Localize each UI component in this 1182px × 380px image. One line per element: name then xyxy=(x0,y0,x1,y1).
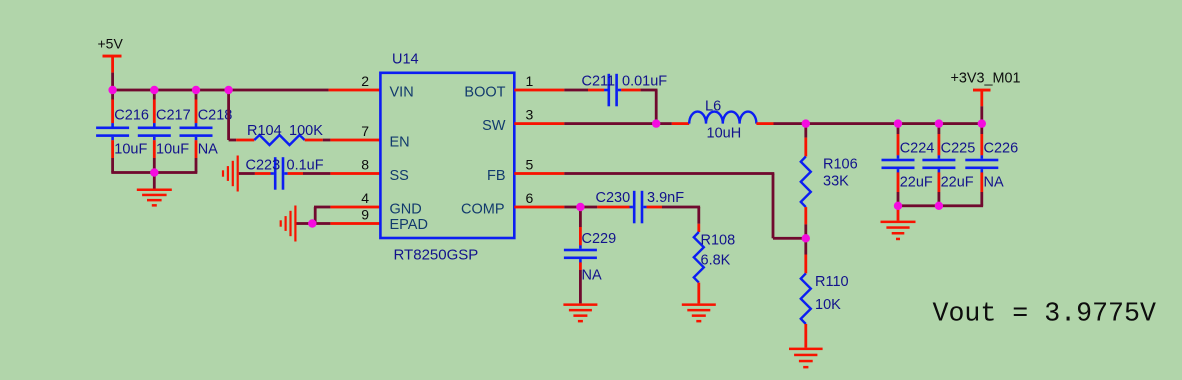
resistor R106 body xyxy=(801,157,811,208)
svg-text:8: 8 xyxy=(361,157,369,173)
pin name GND xyxy=(390,201,422,217)
resistor R108 top pin xyxy=(697,207,700,232)
svg-text:U14: U14 xyxy=(392,51,419,67)
inductor L6 left pin xyxy=(672,122,689,125)
pin 3 stub (SW) xyxy=(514,122,564,125)
pin number 4 xyxy=(361,190,369,206)
svg-text:0.01uF: 0.01uF xyxy=(622,74,667,90)
pin number 1 xyxy=(526,73,534,89)
node junction EN branch xyxy=(224,86,232,94)
inductor L6 body xyxy=(689,112,756,124)
value R106 33K xyxy=(823,174,849,190)
label RT8250GSP xyxy=(394,246,479,263)
pin name SW xyxy=(482,118,506,134)
node junction out-gnd rail C224 xyxy=(894,202,902,210)
pin number 5 xyxy=(526,157,534,173)
svg-text:C216: C216 xyxy=(114,107,149,123)
svg-text:10K: 10K xyxy=(815,297,841,313)
wire FB to divider node xyxy=(773,237,806,240)
node junction L6/R106 xyxy=(802,119,810,127)
wire SW to L6 xyxy=(564,122,672,125)
svg-text:FB: FB xyxy=(487,168,506,184)
label C218 xyxy=(198,107,233,123)
pin number 8 xyxy=(361,157,369,173)
node junction R106/R110/FB xyxy=(802,234,810,242)
svg-text:2: 2 xyxy=(361,73,369,89)
pin number 6 xyxy=(526,190,534,206)
pin name SS xyxy=(390,168,409,184)
label R110 xyxy=(815,274,849,290)
svg-text:33K: 33K xyxy=(823,174,849,190)
pin 2 stub (VIN) xyxy=(329,89,381,92)
node junction C217 xyxy=(150,86,158,94)
capacitor C211 right pin xyxy=(621,89,640,92)
pin name COMP xyxy=(461,201,505,217)
capacitor C225 top pin xyxy=(938,124,941,156)
svg-text:L6: L6 xyxy=(705,98,721,114)
resistor R104 right pin xyxy=(305,139,323,142)
label C224 xyxy=(900,140,935,156)
svg-text:10uF: 10uF xyxy=(114,142,147,158)
capacitor C216 plates xyxy=(96,123,129,140)
wire BOOT to C211 xyxy=(564,89,588,92)
value L6 10uH xyxy=(707,125,742,141)
node junction C218 xyxy=(192,86,200,94)
wire +5V rail xyxy=(111,89,328,92)
svg-text:5: 5 xyxy=(526,157,534,173)
wire +3V3 down to rail xyxy=(980,106,983,123)
svg-text:22uF: 22uF xyxy=(900,175,933,191)
capacitor C211 plates xyxy=(604,74,621,107)
wire C216-C218 ground rail xyxy=(111,171,197,174)
capacitor C216 top pin xyxy=(111,90,114,123)
svg-text:R110: R110 xyxy=(815,274,849,290)
svg-text:C230: C230 xyxy=(596,190,631,206)
svg-text:+5V: +5V xyxy=(98,36,124,52)
power flag +3V3_M01 bar symbol xyxy=(973,89,991,107)
label C226 xyxy=(984,140,1019,156)
svg-text:NA: NA xyxy=(984,175,1004,191)
value C211 0.01uF xyxy=(622,74,667,90)
capacitor C226 bottom pin xyxy=(980,172,983,205)
node junction out-gnd rail C225 xyxy=(935,202,943,210)
wire FB horizontal xyxy=(564,172,774,175)
capacitor C229 bottom pin xyxy=(579,262,582,303)
svg-text:6: 6 xyxy=(526,190,534,206)
label C216 xyxy=(114,107,149,123)
resistor R104 left pin xyxy=(236,139,254,142)
ground GND2 (C223, sideways) xyxy=(222,156,239,192)
pin number 3 xyxy=(526,107,534,123)
svg-text:R106: R106 xyxy=(823,156,858,172)
label C230 xyxy=(596,190,631,206)
label C225 xyxy=(941,140,976,156)
resistor R110 body xyxy=(801,273,811,324)
svg-text:100K: 100K xyxy=(289,123,323,139)
value C216 10uF xyxy=(114,142,147,158)
svg-text:C218: C218 xyxy=(198,107,233,123)
label C217 xyxy=(156,107,191,123)
text Vout = 3.9775V xyxy=(933,298,1156,328)
ground GND1 (input caps) xyxy=(137,189,172,207)
svg-text:EPAD: EPAD xyxy=(390,217,428,233)
resistor R110 bottom pin xyxy=(804,324,807,348)
capacitor C230 left pin xyxy=(597,206,629,209)
capacitor C218 bottom pin xyxy=(195,140,198,172)
node junction GND/EPAD xyxy=(308,219,316,227)
label U14 designator xyxy=(392,51,419,67)
svg-text:BOOT: BOOT xyxy=(464,85,505,101)
pin 5 stub (FB) xyxy=(514,172,564,175)
svg-text:10uF: 10uF xyxy=(156,142,189,158)
wire C223 to pin 8 xyxy=(303,172,330,175)
svg-text:1: 1 xyxy=(526,73,534,89)
capacitor C216 bottom pin xyxy=(111,140,114,172)
svg-text:3: 3 xyxy=(526,107,534,123)
resistor R104 body xyxy=(254,135,304,145)
svg-text:C211: C211 xyxy=(582,74,616,90)
wire EPAD node to pin 9 xyxy=(312,222,330,225)
wire +5V down to rail xyxy=(111,73,114,90)
svg-text:4: 4 xyxy=(361,190,369,206)
pin name EPAD xyxy=(390,217,428,233)
wire FB down xyxy=(772,174,775,239)
wire COMP to node xyxy=(564,206,580,209)
resistor R110 top pin xyxy=(804,238,807,273)
power flag +5V bar symbol xyxy=(103,55,122,73)
capacitor C217 top pin xyxy=(153,90,156,123)
wire out-gnd rail to GND xyxy=(897,206,900,221)
svg-text:RT8250GSP: RT8250GSP xyxy=(394,246,479,263)
capacitor C223 plates xyxy=(271,157,288,190)
svg-text:NA: NA xyxy=(198,142,218,158)
wire node to C230 xyxy=(580,206,597,209)
node junction +3V3/C226 xyxy=(978,119,986,127)
ground GND5 (R110) xyxy=(789,348,823,369)
wire C211 to SW node xyxy=(641,89,658,124)
capacitor C223 right pin xyxy=(288,172,303,175)
resistor R106 top pin xyxy=(804,124,807,157)
wire L6 to output node xyxy=(774,122,806,125)
pin 8 stub (SS) xyxy=(330,172,380,175)
svg-text:22uF: 22uF xyxy=(941,175,974,191)
label L6 xyxy=(705,98,721,114)
svg-text:VIN: VIN xyxy=(390,85,414,101)
value C229 NA xyxy=(582,268,602,284)
resistor R106 bottom pin xyxy=(804,207,807,238)
svg-text:9: 9 xyxy=(361,207,369,223)
wire EPAD node up to GND pin xyxy=(314,206,331,224)
svg-text:0.1uF: 0.1uF xyxy=(287,158,324,174)
svg-text:C224: C224 xyxy=(900,140,935,156)
op-amp U14 body (RT8250GSP regulator) xyxy=(380,73,514,238)
value R110 10K xyxy=(815,297,841,313)
value R108 6.8K xyxy=(701,253,731,269)
ground GND6 (C229) xyxy=(563,303,597,322)
svg-text:COMP: COMP xyxy=(461,201,505,217)
svg-text:C223: C223 xyxy=(246,158,281,174)
wire EN branch down xyxy=(227,90,236,141)
capacitor C230 right pin xyxy=(647,206,662,209)
pin number 2 xyxy=(361,73,369,89)
wire C230 to R108 xyxy=(662,206,700,209)
pin name BOOT xyxy=(464,85,505,101)
capacitor C229 plates (horizontal) xyxy=(564,245,597,262)
pin name FB xyxy=(487,168,506,184)
wire R104 to pin 7 xyxy=(323,139,331,142)
label C223 xyxy=(246,158,281,174)
value R104 100K xyxy=(289,123,323,139)
label R108 xyxy=(701,232,736,248)
svg-text:EN: EN xyxy=(390,134,410,150)
label C229 xyxy=(582,231,617,247)
pin 6 stub (COMP) xyxy=(514,206,564,209)
pin 7 stub (EN) xyxy=(330,139,380,142)
capacitor C225 plates xyxy=(922,155,955,172)
node junction C224 top xyxy=(894,119,902,127)
node junction ground rail xyxy=(150,168,158,176)
capacitor C230 plates xyxy=(630,191,647,224)
wire ground rail to GND xyxy=(153,173,156,190)
svg-text:C226: C226 xyxy=(984,140,1019,156)
label R104 xyxy=(247,123,282,139)
inductor L6 right pin xyxy=(756,122,773,125)
ground GND7 (R108) xyxy=(682,303,716,322)
node junction COMP/C229/C230 xyxy=(576,203,584,211)
capacitor C225 bottom pin xyxy=(938,172,941,205)
pin 9 stub (EPAD) xyxy=(330,222,380,225)
ground GND3 (EPAD, sideways) xyxy=(280,206,297,242)
svg-text:3.9nF: 3.9nF xyxy=(647,190,684,206)
wire ground to EPAD node xyxy=(297,222,313,225)
wire ground to C223 xyxy=(239,172,255,175)
resistor R108 body xyxy=(694,232,704,283)
capacitor C229 top pin xyxy=(579,207,582,245)
pin number 9 xyxy=(361,207,369,223)
value C218 NA xyxy=(198,142,218,158)
label C211 xyxy=(582,74,616,90)
pin 1 stub (BOOT) xyxy=(514,89,564,92)
svg-text:7: 7 xyxy=(361,123,369,139)
power flag +5V net label xyxy=(98,36,124,52)
node junction C225 top xyxy=(935,119,943,127)
value C217 10uF xyxy=(156,142,189,158)
value C223 0.1uF xyxy=(287,158,324,174)
svg-text:C229: C229 xyxy=(582,231,617,247)
capacitor C217 bottom pin xyxy=(153,140,156,172)
svg-text:R108: R108 xyxy=(701,232,736,248)
value C230 3.9nF xyxy=(647,190,684,206)
wire output rail xyxy=(806,122,982,125)
svg-text:10uH: 10uH xyxy=(707,125,742,141)
pin number 7 xyxy=(361,123,369,139)
capacitor C211 left pin xyxy=(588,89,604,92)
svg-text:C217: C217 xyxy=(156,107,191,123)
capacitor C217 plates xyxy=(138,123,171,140)
resistor R108 bottom pin xyxy=(697,283,700,304)
node junction +5V/C216 xyxy=(108,86,116,94)
svg-text:SW: SW xyxy=(482,118,506,134)
wire C224-C226 ground rail xyxy=(897,204,983,207)
capacitor C218 top pin xyxy=(195,90,198,123)
capacitor C226 top pin xyxy=(980,124,983,156)
label R106 xyxy=(823,156,858,172)
svg-text:6.8K: 6.8K xyxy=(701,253,731,269)
capacitor C224 plates xyxy=(882,155,915,172)
power flag +3V3_M01 net label xyxy=(951,71,1021,87)
value C225 22uF xyxy=(941,175,974,191)
svg-text:C225: C225 xyxy=(941,140,976,156)
capacitor C218 plates xyxy=(180,123,213,140)
capacitor C223 left pin xyxy=(255,172,271,175)
pin name VIN xyxy=(390,85,414,101)
capacitor C224 top pin xyxy=(897,124,900,156)
svg-text:GND: GND xyxy=(390,201,422,217)
value C224 22uF xyxy=(900,175,933,191)
capacitor C224 bottom pin xyxy=(897,172,900,205)
svg-text:SS: SS xyxy=(390,168,409,184)
pin name EN xyxy=(390,134,410,150)
svg-text:+3V3_M01: +3V3_M01 xyxy=(951,71,1021,87)
svg-text:NA: NA xyxy=(582,268,602,284)
value C226 NA xyxy=(984,175,1004,191)
pin 4 stub (GND) xyxy=(330,206,380,209)
svg-text:Vout = 3.9775V: Vout = 3.9775V xyxy=(933,298,1156,328)
node junction BOOT/SW xyxy=(652,119,660,127)
svg-text:R104: R104 xyxy=(247,123,282,139)
capacitor C226 plates xyxy=(965,155,998,172)
ground GND4 (output caps) xyxy=(881,221,916,241)
